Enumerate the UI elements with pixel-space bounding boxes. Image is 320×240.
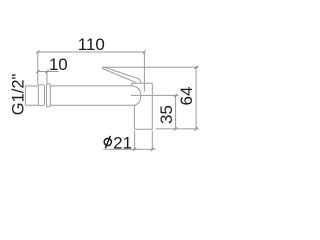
- thread pipe G1/2: [25, 86, 38, 105]
- svg-text:G1/2": G1/2": [10, 73, 28, 115]
- dim 35 line: [175, 95, 177, 128]
- svg-text:35: 35: [157, 105, 176, 124]
- dim 64 top extension: [103, 66, 199, 68]
- lever blade bottom edge: [102, 69, 135, 84]
- tick 110 right: [143, 50, 146, 53]
- dim 110 left extension: [37, 52, 39, 85]
- svg-text:10: 10: [49, 55, 68, 74]
- head cap arc: [132, 86, 141, 105]
- tick 35 bottom: [174, 127, 177, 130]
- phi symbol: [104, 136, 111, 148]
- dim 110 line: [38, 51, 145, 53]
- lever blade tip edge: [101, 67, 104, 69]
- head block right: [151, 83, 153, 129]
- escutcheon flange: [38, 85, 44, 106]
- dim d21 right extension: [151, 131, 153, 150]
- tick 10 left: [36, 70, 39, 73]
- tick d21 right: [151, 148, 154, 151]
- dim d21 line: [103, 148, 155, 150]
- tube bottom line: [50, 104, 134, 106]
- tick 35 top: [174, 94, 177, 97]
- dim 110 right extension: [143, 52, 145, 92]
- tick 64 bottom: [195, 127, 198, 130]
- tick 64 top: [195, 66, 198, 69]
- dim 64 line: [195, 67, 197, 129]
- tick d21 left: [133, 148, 136, 151]
- collar nut: [47, 84, 51, 107]
- dim 10 line: [38, 71, 59, 73]
- tick 110 left: [36, 50, 39, 53]
- dim 10 right extension: [46, 72, 48, 84]
- head block left: [133, 105, 135, 129]
- dim d21 left extension: [134, 131, 136, 149]
- axis centerline: [131, 94, 179, 96]
- svg-text:110: 110: [78, 35, 105, 54]
- tube top line: [50, 85, 131, 87]
- svg-text:21: 21: [113, 134, 132, 153]
- dim 35-64 bottom extension: [156, 128, 199, 130]
- lever blade top edge: [103, 67, 141, 83]
- tick 10 right: [45, 70, 48, 73]
- head block left face upper: [131, 83, 133, 86]
- head block top: [132, 82, 153, 84]
- head block bottom: [135, 128, 153, 130]
- svg-text:64: 64: [177, 87, 196, 106]
